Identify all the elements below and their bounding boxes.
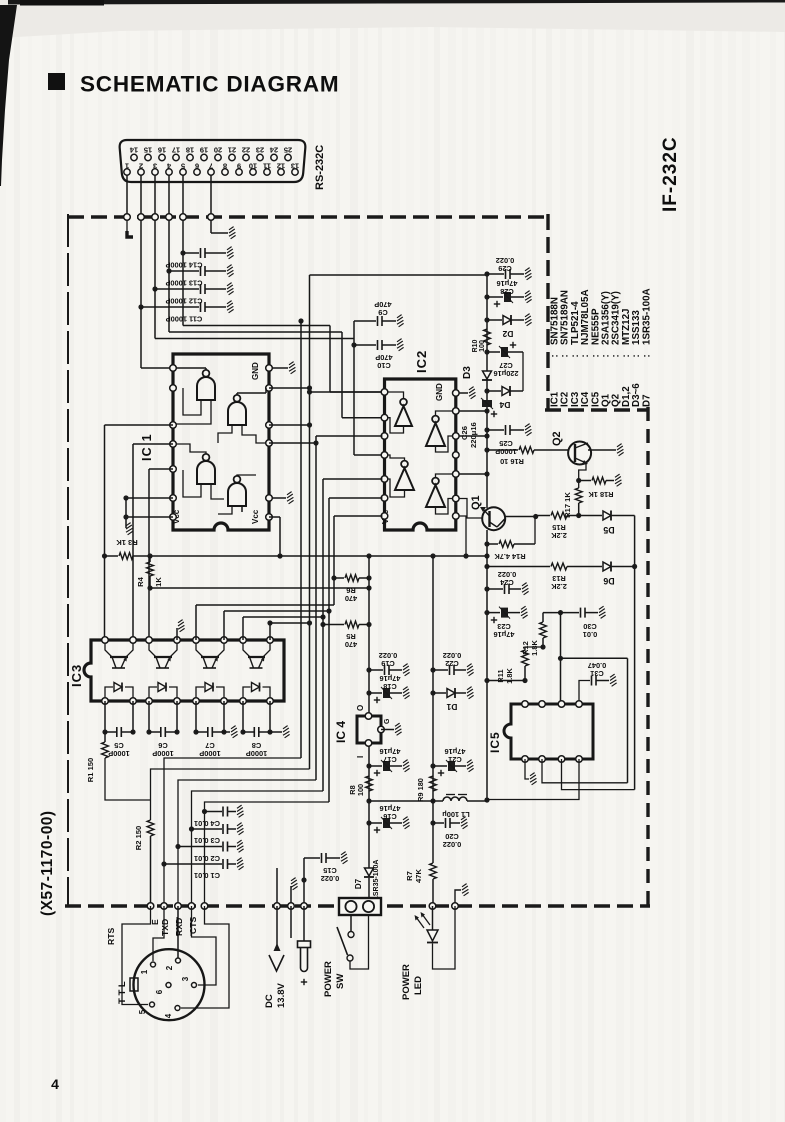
svg-text:I: I: [356, 756, 365, 758]
svg-text:L1 100μ: L1 100μ: [442, 810, 470, 819]
phototransistor cell IC3: [105, 643, 112, 657]
wire pin4: [168, 175, 170, 332]
resistor R17 1K: [575, 488, 582, 503]
pin IC1-L: [170, 422, 177, 429]
capacitor C21 47u16: [430, 763, 435, 768]
resistor R18 1K: [579, 480, 591, 482]
svg-text:C7: C7: [205, 741, 214, 750]
capacitor C31 0.047: [579, 681, 590, 705]
wire h556 long rail: [105, 555, 119, 557]
svg-text:R18 1K: R18 1K: [588, 490, 614, 499]
diode D6 ISSI33: [603, 562, 611, 571]
svg-text:470: 470: [345, 640, 357, 649]
pin 11: [264, 169, 270, 175]
pin IC1-L: [170, 441, 177, 448]
IC3 upper pin feeds: [176, 630, 178, 640]
svg-text:C4 0.01: C4 0.01: [194, 819, 220, 828]
inverter IC2-A: [395, 406, 412, 426]
svg-text:R15: R15: [552, 523, 566, 532]
gate IC1-C: [197, 461, 215, 484]
capacitor C14 1000P: [180, 250, 185, 255]
svg-text:18: 18: [186, 146, 194, 155]
capacitor C22 0.022: [430, 667, 435, 672]
wire bundle verticals: [315, 436, 317, 780]
diode D1 MTZ12J: [430, 690, 435, 695]
wire IC1 pin9/pin10 to IC3: [133, 443, 173, 445]
wire v309: [309, 275, 311, 769]
svg-text:TXD: TXD: [160, 919, 170, 936]
gate IC1-D: [228, 483, 246, 506]
svg-text:6: 6: [195, 162, 199, 171]
wire IC5 bottom pin4: [487, 759, 579, 800]
capacitor C23 47u16: [484, 610, 489, 615]
resistor R6 470: [331, 575, 336, 580]
pin IC3-top: [130, 637, 137, 644]
inverter IC2-C: [395, 468, 414, 490]
pin 7: [208, 169, 214, 175]
svg-text:1.8K: 1.8K: [505, 668, 514, 684]
svg-text:IC 4: IC 4: [334, 721, 348, 743]
wire pin2: [140, 175, 142, 307]
svg-text:C27: C27: [499, 361, 513, 370]
pin TTL-6: [166, 983, 171, 988]
svg-text:IC 1: IC 1: [140, 433, 154, 461]
svg-text:47K: 47K: [414, 869, 423, 883]
wire v627 loop: [627, 658, 629, 783]
resistor R16 10: [484, 447, 489, 452]
svg-text:R3 1K: R3 1K: [116, 538, 138, 547]
svg-text:5: 5: [138, 1009, 147, 1014]
svg-text:220μ16: 220μ16: [469, 422, 478, 448]
wire net RXD to IC1: [154, 289, 156, 339]
wire RXD: [192, 906, 217, 985]
svg-text:C15: C15: [323, 866, 337, 875]
svg-text:D7: D7: [641, 394, 652, 407]
wires IC2-R to bus: [459, 410, 487, 412]
svg-text:0.047: 0.047: [588, 661, 607, 670]
pin 25: [285, 154, 291, 160]
power LED: [432, 906, 434, 930]
svg-text:D1: D1: [446, 702, 457, 712]
capacitor C28 47u16: [484, 294, 489, 299]
wire IC1 right pins: [269, 387, 310, 389]
resistor R4 1K: [147, 562, 154, 576]
svg-text:R6: R6: [346, 586, 355, 595]
wire DC plug: [290, 906, 292, 938]
pin 3: [152, 169, 158, 175]
pin 24: [271, 154, 277, 160]
pin TTL-1: [151, 962, 156, 967]
wire h588: [150, 587, 369, 589]
svg-text:C11 1000P: C11 1000P: [166, 315, 203, 324]
ground IC3 top: [176, 628, 178, 630]
svg-text:21: 21: [228, 146, 236, 155]
capacitor C24 0.022: [484, 586, 489, 591]
pin 21: [229, 154, 235, 160]
svg-text:11: 11: [263, 162, 271, 171]
capacitor C10 470P: [351, 342, 356, 347]
svg-text:7: 7: [209, 162, 213, 171]
svg-text:D3: D3: [462, 366, 473, 379]
svg-text:C13 1000P: C13 1000P: [165, 279, 202, 288]
wire pin1: [126, 175, 128, 217]
ground IC1 GND pin: [272, 367, 288, 369]
svg-text:19: 19: [200, 146, 208, 155]
svg-text:14: 14: [129, 146, 138, 155]
svg-text:LED: LED: [413, 976, 424, 995]
svg-text:10: 10: [249, 162, 257, 171]
svg-text:22: 22: [242, 146, 250, 155]
svg-text:D5: D5: [603, 525, 614, 535]
svg-text:16: 16: [158, 146, 166, 155]
svg-text:D6: D6: [603, 576, 614, 586]
wire Q2 collector to ground: [588, 449, 616, 451]
resistor R5 470: [320, 622, 325, 627]
capacitor C17 47u16: [366, 763, 371, 768]
capacitor C19 0.022: [366, 667, 371, 672]
DC plug barrel: [298, 941, 311, 948]
pin IC1-L: [170, 466, 177, 473]
svg-text:IC2: IC2: [414, 350, 429, 373]
svg-text:3: 3: [153, 162, 157, 171]
pin IC3-top: [193, 637, 200, 644]
svg-text:C30: C30: [583, 622, 597, 631]
svg-text:Vcc: Vcc: [251, 509, 260, 524]
pin IC5-bottom: [539, 756, 546, 763]
phototransistor cell IC3: [243, 643, 250, 657]
svg-text:2.2K: 2.2K: [551, 531, 567, 540]
pin IC3-top: [221, 637, 228, 644]
svg-text:47μ16: 47μ16: [380, 674, 401, 683]
svg-text:GND: GND: [435, 383, 444, 401]
pin IC2-L: [381, 452, 388, 459]
pin TTL-3: [192, 983, 197, 988]
svg-text:C8: C8: [252, 741, 261, 750]
wire IC5 bottom pin3: [562, 759, 635, 790]
pin IC5-top: [576, 701, 583, 708]
svg-text:100: 100: [479, 340, 486, 352]
pin 18: [187, 154, 193, 160]
svg-text:R2 150: R2 150: [134, 826, 143, 851]
wire Q2 emitter: [579, 463, 586, 488]
svg-text:R7: R7: [405, 871, 414, 881]
svg-text:0.022: 0.022: [443, 840, 462, 849]
diode D5 ISSI33: [603, 511, 611, 520]
resistor R13 2.2K: [484, 564, 489, 569]
capacitor C27 220u16: [484, 349, 489, 354]
pin IC1-R: [266, 440, 273, 447]
photodiode cell IC3: [243, 687, 251, 698]
diode D2 MTZ12J: [484, 317, 489, 322]
svg-text:9: 9: [237, 162, 241, 171]
capacitor C11 1000P: [138, 304, 143, 309]
svg-text:T T L: T T L: [117, 981, 128, 1004]
pin 22: [243, 154, 249, 160]
capacitor C3 0.01: [189, 826, 194, 831]
pin IC5-top: [558, 701, 565, 708]
inverter IC2-B: [426, 423, 445, 446]
wires IC2-L feeds: [316, 435, 383, 437]
wire pin7: [210, 175, 212, 233]
svg-text:1000P: 1000P: [246, 749, 267, 758]
capacitor C8 1000P: [242, 701, 244, 732]
svg-text:1000P: 1000P: [108, 749, 129, 758]
inductor L1 100u: [443, 797, 467, 801]
capacitor C26 220u16: [481, 398, 493, 409]
svg-text:R16 10: R16 10: [500, 457, 524, 466]
svg-text:5: 5: [181, 162, 185, 171]
pin 14: [131, 154, 137, 160]
pin 9: [236, 169, 242, 175]
svg-text:R4: R4: [136, 576, 145, 586]
capacitor C6 1000P: [148, 701, 150, 732]
svg-text:Q2: Q2: [551, 431, 563, 446]
wire v301 bundle: [298, 318, 303, 323]
pin IC1-L: [170, 495, 177, 502]
pin IC1-L: [170, 385, 177, 392]
pin IC3-bottom: [102, 698, 109, 705]
resistor R11 1.8K: [525, 647, 543, 650]
svg-text:R9 180: R9 180: [416, 778, 425, 802]
optocoupler IC3 TLP521-4 box: [84, 640, 284, 701]
svg-text:13: 13: [291, 162, 299, 171]
scan left edge wedge: [0, 5, 17, 186]
regulator IC4 NJM78L05A: [357, 716, 381, 743]
wire IC1 pin5: [105, 424, 174, 426]
svg-text:0.022: 0.022: [443, 651, 462, 660]
svg-text:RXD: RXD: [174, 918, 184, 936]
svg-text:E: E: [150, 919, 160, 925]
pin TTL-5: [150, 1002, 155, 1007]
pin IC3-top: [240, 637, 247, 644]
pin IC1-R: [266, 422, 273, 429]
wire v560 to IC5: [560, 613, 562, 704]
svg-text:POWER: POWER: [323, 961, 334, 997]
svg-text:C25: C25: [499, 439, 513, 448]
pin TTL-4: [175, 1006, 180, 1011]
polarity mark: [269, 955, 284, 971]
svg-text:220μ16: 220μ16: [493, 369, 518, 378]
wire v634: [634, 516, 636, 790]
svg-text:1000P: 1000P: [199, 749, 220, 758]
svg-text:470P: 470P: [375, 353, 392, 362]
pin IC2-L: [381, 513, 388, 520]
pin IC1-L: [170, 365, 177, 372]
pin IC2-R: [453, 513, 460, 520]
svg-text:O: O: [356, 705, 365, 711]
timer IC5 NE555P box: [504, 704, 593, 759]
wire E: [153, 906, 164, 961]
ground stub: [291, 878, 298, 890]
inverter IC2-D: [426, 485, 445, 507]
wire loop returns: [164, 758, 301, 906]
svg-text:2: 2: [139, 162, 143, 171]
pin 1: [124, 169, 130, 175]
wire main bus v369: [368, 556, 370, 716]
svg-text:IC3: IC3: [69, 664, 84, 687]
circuit board dashed border (X57-1170-00): [68, 215, 548, 218]
pin IC2-R: [453, 390, 460, 397]
wire pin5: [182, 175, 184, 326]
svg-text:(X57-1170-00): (X57-1170-00): [39, 810, 56, 916]
pin IC3-bottom: [174, 698, 181, 705]
wire CTS: [181, 906, 229, 1008]
wire h801: [366, 798, 371, 803]
svg-text:0.022: 0.022: [498, 570, 517, 579]
phototransistor cell IC3: [149, 643, 156, 657]
capacitor C2 0.01: [175, 844, 180, 849]
svg-text:DC: DC: [264, 994, 275, 1008]
pin IC2-L: [381, 495, 388, 502]
capacitor C5 1000P: [104, 701, 106, 732]
pin 15: [145, 154, 151, 160]
pin IC3-bottom: [193, 698, 200, 705]
pin IC5-bottom: [576, 756, 583, 763]
diode D7 ISR35-100A: [368, 868, 370, 869]
svg-text:1: 1: [140, 969, 149, 974]
pin 20: [215, 154, 221, 160]
svg-text:R5: R5: [346, 632, 355, 641]
pin 8: [222, 169, 228, 175]
pin IC3-bottom: [130, 698, 137, 705]
svg-text:C3 0.01: C3 0.01: [194, 836, 220, 845]
svg-text:R10: R10: [472, 339, 479, 352]
resistor R14 4.7K: [484, 541, 489, 546]
svg-text:0.01: 0.01: [583, 630, 597, 639]
op-amp IC1 SN75188N box: [173, 354, 269, 530]
svg-text:6: 6: [155, 989, 164, 994]
pin IC2-R: [453, 471, 460, 478]
wire Q1 collector row: [497, 519, 505, 527]
wire IC1 lower-left to ground: [126, 497, 173, 499]
svg-text:R14 4.7K: R14 4.7K: [494, 552, 526, 561]
pin TTL-2: [176, 958, 181, 963]
pin IC3-top: [146, 637, 153, 644]
svg-text:C26: C26: [460, 426, 469, 440]
wire IC5 bottom pin1 ground: [525, 759, 529, 779]
svg-text:R13: R13: [552, 574, 566, 583]
svg-text:C6: C6: [158, 741, 167, 750]
capacitor C12 1000P: [152, 286, 157, 291]
gate IC1-A: [197, 377, 215, 400]
capacitor C25 1000P: [484, 427, 489, 432]
pin IC3-top: [102, 637, 109, 644]
pin IC2-R: [453, 495, 460, 502]
pin 5: [180, 169, 186, 175]
svg-text:1000P: 1000P: [152, 749, 173, 758]
resistor R2 150: [147, 820, 154, 836]
pin IC1-R: [266, 514, 273, 521]
pin IC3-top: [267, 637, 274, 644]
svg-text:24: 24: [269, 146, 278, 155]
resistor R1 150: [104, 732, 106, 742]
pin IC3-bottom: [146, 698, 153, 705]
wire h680 bus to R11: [484, 678, 489, 683]
wire IC5 bottom pin2: [542, 759, 628, 783]
title block: [48, 73, 65, 90]
wire v104 long left rail: [104, 425, 106, 640]
svg-text:POWER: POWER: [401, 964, 412, 1000]
pin IC5-top: [539, 701, 546, 708]
svg-text:1K: 1K: [154, 577, 163, 587]
pin IC2-R: [453, 433, 460, 440]
pin 19: [201, 154, 207, 160]
resistor R10 100: [484, 329, 491, 345]
ground: [229, 227, 236, 239]
capacitor C1 0.01: [161, 861, 166, 866]
svg-text:CTS: CTS: [188, 917, 198, 934]
pin IC5-bottom: [522, 756, 529, 763]
svg-text:C14 1000P: C14 1000P: [165, 261, 202, 270]
svg-text:0.022: 0.022: [379, 651, 398, 660]
ground stub right: [455, 890, 461, 904]
svg-text:1000P: 1000P: [495, 447, 516, 456]
svg-text:2.2K: 2.2K: [551, 582, 567, 591]
pin IC2-R: [453, 452, 460, 459]
svg-text:SCHEMATIC DIAGRAM: SCHEMATIC DIAGRAM: [80, 72, 339, 97]
photodiode cell IC3: [105, 687, 113, 698]
svg-text:C5: C5: [114, 741, 123, 750]
svg-text:SW: SW: [335, 974, 346, 989]
pin 10: [250, 169, 256, 175]
svg-text:2: 2: [165, 965, 174, 970]
pin IC2-L: [381, 476, 388, 483]
border crossing circles bottom: [147, 903, 154, 910]
svg-text:D2: D2: [502, 329, 513, 339]
svg-text:C1 0.01: C1 0.01: [194, 871, 220, 880]
wire run h332 to IC2: [169, 331, 342, 333]
phototransistor cell IC3: [196, 643, 203, 657]
svg-text:RS-232C: RS-232C: [314, 145, 326, 190]
svg-text:1SR35-100A: 1SR35-100A: [373, 860, 380, 900]
wire RTS: [122, 906, 151, 1005]
pin 12: [278, 169, 284, 175]
svg-text:1.8K: 1.8K: [530, 640, 539, 656]
wire run h325 to IC2: [183, 325, 330, 327]
ground C7: [224, 731, 230, 733]
ground C8: [270, 731, 282, 733]
wire net TXD to IC1: [140, 307, 142, 368]
photodiode cell IC3: [196, 687, 204, 698]
capacitor C18 47u16: [366, 690, 371, 695]
svg-text:1SR35-100A: 1SR35-100A: [641, 288, 652, 345]
pin IC2-L: [381, 389, 388, 396]
pin IC1-L: [170, 514, 177, 521]
svg-text:23: 23: [256, 146, 264, 155]
svg-text:C2 0.01: C2 0.01: [194, 854, 220, 863]
pin IC1-R: [266, 365, 273, 372]
svg-text:47μ16: 47μ16: [380, 747, 401, 756]
svg-text:D7: D7: [354, 878, 363, 889]
pin 4: [166, 169, 172, 175]
wire run h275 to power bus: [310, 274, 488, 276]
svg-text:47μ16: 47μ16: [494, 630, 515, 639]
svg-text:C20: C20: [445, 832, 459, 841]
svg-text:RTS: RTS: [106, 928, 116, 945]
pin IC2-L: [381, 414, 388, 421]
svg-text:4: 4: [51, 1076, 59, 1092]
svg-text:GND: GND: [251, 362, 260, 380]
capacitor C16 47u16: [366, 820, 371, 825]
op-amp IC2 SN75189AN box: [385, 379, 456, 530]
svg-text:25: 25: [284, 146, 292, 155]
resistor R8 100: [366, 776, 373, 791]
connector J2 TTL DIN: [134, 949, 205, 1020]
wire DC minus: [276, 906, 278, 950]
svg-text:20: 20: [214, 146, 222, 155]
power switch SW1: [350, 915, 352, 931]
wire TXD: [177, 906, 179, 958]
